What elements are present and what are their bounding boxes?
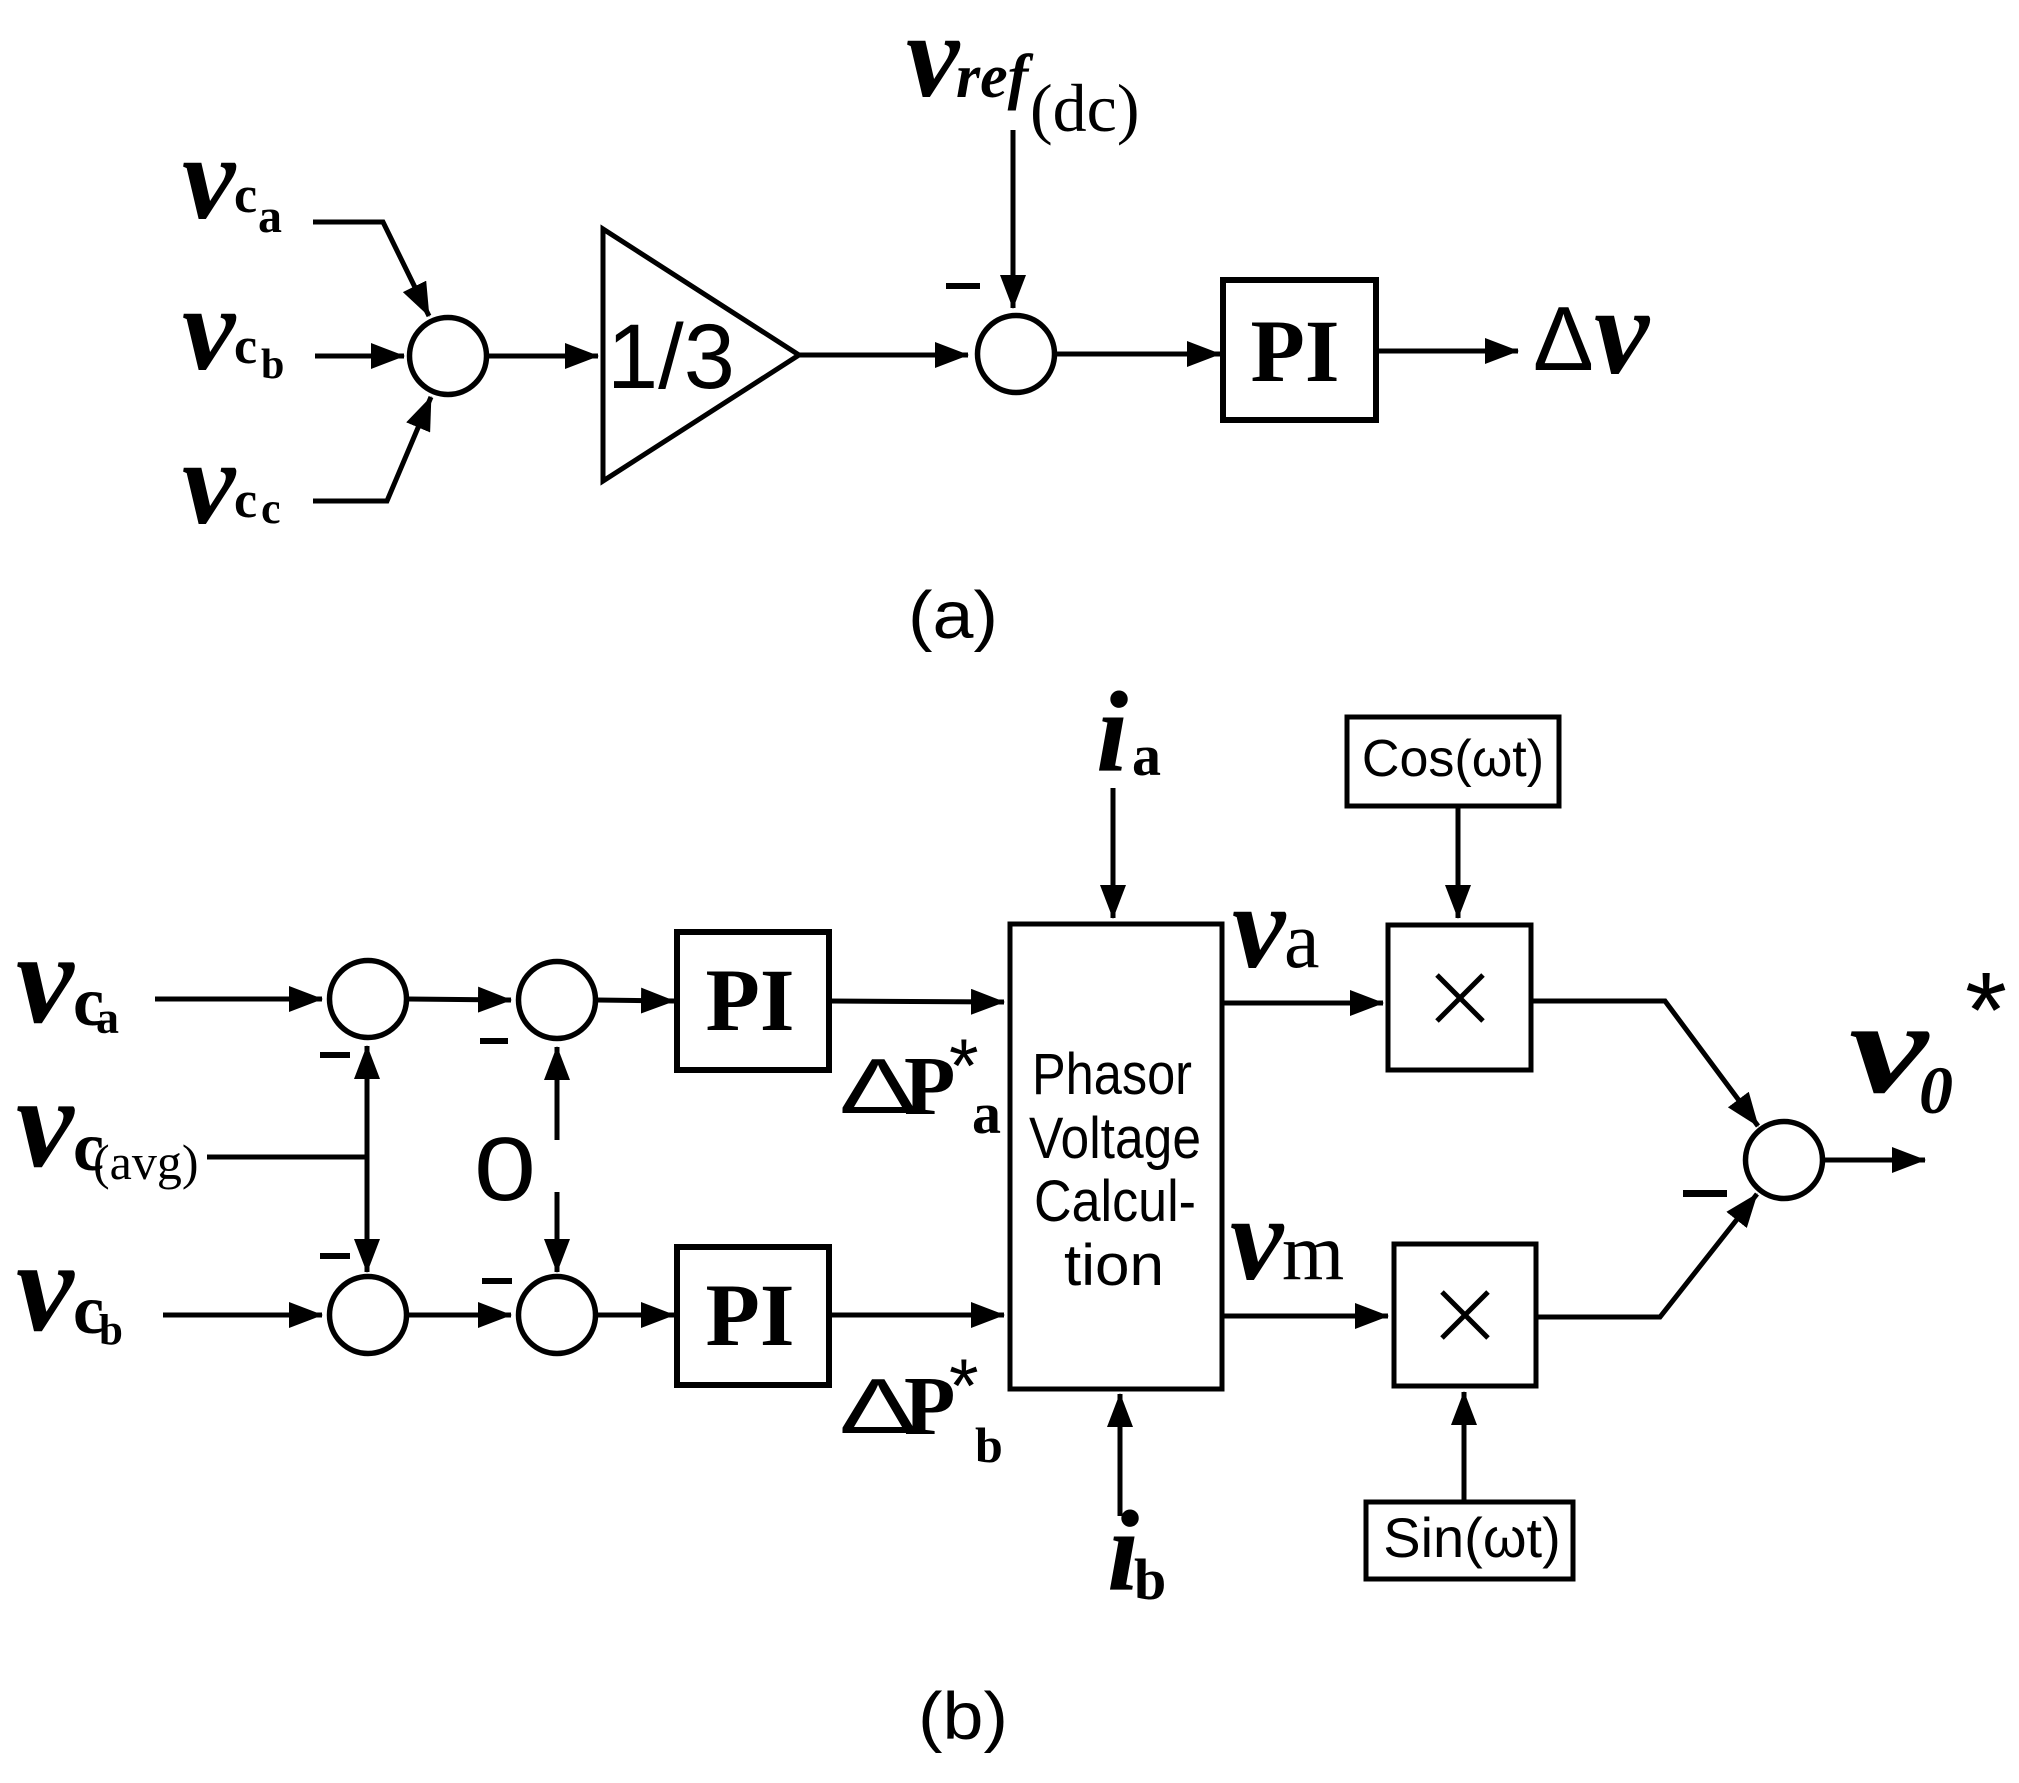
svg-text:PI: PI [706,952,795,1050]
svg-text:P: P [904,1040,955,1133]
svg-text:a: a [258,190,282,243]
svg-text:c: c [234,472,257,529]
svg-text:b: b [99,1307,123,1354]
svg-text:v: v [1849,974,1930,1121]
svg-text:v: v [1232,860,1287,993]
svg-text:PI: PI [706,1267,795,1365]
svg-text:(b): (b) [918,1679,1008,1754]
svg-text:c: c [234,167,257,224]
svg-text:b: b [261,342,284,388]
svg-text:0: 0 [1919,1052,1953,1128]
svg-text:ref: ref [956,43,1034,111]
svg-text:Δ: Δ [1533,289,1594,390]
svg-text:tion: tion [1064,1233,1164,1298]
svg-text:PI: PI [1251,303,1340,401]
svg-text:a: a [1284,897,1320,985]
svg-text:(a): (a) [908,578,998,653]
svg-text:P: P [904,1360,955,1453]
svg-text:c: c [261,484,281,533]
svg-text:c: c [234,318,257,375]
svg-text:a: a [96,992,119,1043]
svg-text:v: v [182,416,237,549]
svg-text:v: v [1230,1172,1285,1305]
svg-text:b: b [1134,1547,1166,1612]
svg-text:v: v [182,111,237,244]
svg-text:Sin(ωt): Sin(ωt) [1383,1506,1561,1569]
svg-text:i: i [1096,669,1128,797]
svg-text:a: a [972,1081,1001,1146]
svg-text:0: 0 [474,1120,536,1220]
svg-text:(avg): (avg) [93,1134,199,1190]
svg-text:Calcul-: Calcul- [1034,1169,1196,1234]
svg-text:v: v [906,0,961,122]
svg-text:v: v [16,1215,75,1359]
svg-text:Voltage: Voltage [1029,1106,1201,1171]
svg-text:a: a [1132,723,1161,788]
svg-text:(dc): (dc) [1030,70,1139,146]
svg-text:Cos(ωt): Cos(ωt) [1362,730,1544,788]
svg-text:v: v [1594,263,1651,400]
svg-text:1/3: 1/3 [607,306,735,408]
svg-text:Phasor: Phasor [1032,1042,1192,1107]
svg-text:*: * [1965,949,2007,1070]
svg-text:m: m [1282,1209,1344,1297]
svg-text:v: v [182,262,237,395]
svg-text:b: b [975,1417,1003,1473]
svg-text:v: v [16,1051,75,1195]
svg-text:v: v [16,907,75,1051]
